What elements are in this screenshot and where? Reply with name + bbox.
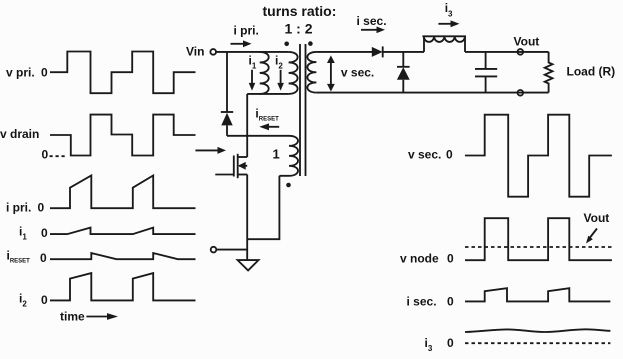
primary winding branch i1 [260,52,269,94]
svg-text:iRESET: iRESET [7,249,31,265]
svg-text:Vout: Vout [584,211,610,225]
svg-text:v node: v node [400,251,439,265]
svg-text:i sec.: i sec. [357,14,387,28]
svg-text:0: 0 [446,148,453,162]
svg-text:i2: i2 [19,292,27,309]
wire winding return [247,176,279,239]
svg-text:1: 1 [273,147,280,162]
dot W3 polarity [286,183,291,188]
svg-text:iRESET: iRESET [255,107,279,123]
diode D2 reset [221,111,233,113]
waveform v drain [50,115,196,156]
svg-text:turns ratio:: turns ratio: [263,3,337,19]
svg-text:i2: i2 [275,54,283,71]
wire D1 to L1 [383,51,424,53]
gate drive arrow [195,149,218,151]
svg-text:i sec.: i sec. [407,295,437,309]
i3 zero dashed [465,342,610,344]
primary winding branch i2 [289,52,298,94]
secondary winding [307,52,316,93]
node source terminal [211,247,217,253]
svg-text:i pri.: i pri. [234,24,259,38]
capacitor C1 [485,52,487,69]
svg-text:0: 0 [447,336,454,350]
svg-text:v sec.: v sec. [408,148,441,162]
svg-text:0: 0 [447,295,454,309]
svg-text:time: time [60,310,85,324]
svg-text:i pri.: i pri. [6,201,31,215]
svg-text:0: 0 [41,226,48,240]
svg-text:i3: i3 [425,336,433,353]
wire Vin rail [216,51,289,53]
wire terminal to source [216,249,247,251]
dot secondary polarity [308,41,313,46]
svg-text:v pri.: v pri. [6,66,35,80]
svg-text:1 : 2: 1 : 2 [285,21,313,37]
waveform i pri. [50,176,196,209]
label v sec arrow [330,60,332,87]
svg-text:0: 0 [41,66,48,80]
waveform v sec. [465,115,612,197]
svg-text:i3: i3 [445,1,453,18]
wire source down [246,175,248,261]
wire secondary top [316,51,372,53]
ground [238,260,259,270]
waveform v pri. [50,52,196,94]
svg-text:0: 0 [447,251,454,265]
wire secondary bottom [316,92,548,94]
wire reset horizontal [227,135,287,137]
svg-text:Load (R): Load (R) [567,65,616,79]
svg-text:0: 0 [38,201,45,215]
wire drain junction vertical [246,94,248,157]
Vout dashed level [465,246,612,248]
svg-text:i1: i1 [19,225,27,242]
node bottom terminal [518,90,524,96]
resistor Load R [545,52,553,93]
diode D3 freewheel [402,52,404,67]
svg-text:0: 0 [42,148,49,162]
wire reset diode branch [226,52,228,112]
svg-text:v sec.: v sec. [341,65,374,79]
waveform iRESET [50,253,196,259]
waveform v node [465,218,612,260]
transistor Q1 MOSFET [238,156,248,158]
wire primary bottom [247,93,288,95]
waveform i3 [465,329,610,332]
waveform i sec. [465,288,610,301]
transformer core [299,44,301,176]
svg-text:Vin: Vin [186,45,204,59]
svg-text:0: 0 [40,251,47,265]
svg-text:v drain: v drain [0,127,39,141]
waveform i1 [50,228,196,235]
diode D1 series [372,47,383,57]
wire L1 to load [465,51,549,53]
svg-text:0: 0 [41,293,48,307]
dot primary polarity [284,42,289,47]
svg-text:Vout: Vout [514,35,540,49]
inductor L1 [424,36,465,52]
svg-text:i1: i1 [249,54,257,71]
waveform i2 [50,273,196,300]
